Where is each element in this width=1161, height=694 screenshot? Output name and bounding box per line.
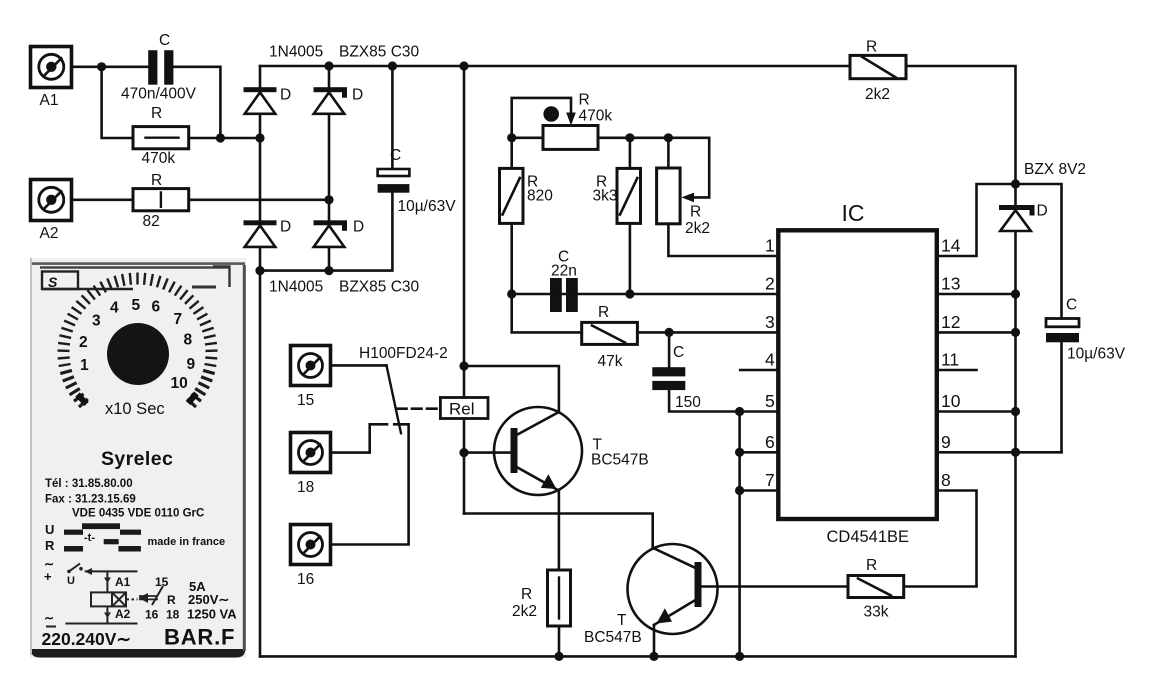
svg-text:14: 14 (941, 236, 961, 256)
terminal A1 (31, 47, 72, 88)
capacitor C 150 (652, 367, 685, 390)
node R2k2 trimmer top (664, 133, 673, 142)
svg-text:18: 18 (297, 479, 314, 496)
svg-text:Tél : 31.85.80.00: Tél : 31.85.80.00 (45, 478, 133, 490)
wire A2 to R82 (72, 199, 134, 202)
svg-text:BZX85 C30: BZX85 C30 (339, 44, 420, 61)
svg-text:1N4005: 1N4005 (269, 279, 323, 296)
top rail right segment (906, 66, 1016, 184)
svg-text:8: 8 (184, 332, 193, 349)
wire pin9 (937, 451, 1062, 454)
node pot left (507, 133, 516, 142)
wire 18 to contact (331, 424, 388, 452)
node pin2 left (507, 289, 516, 298)
svg-text:D: D (280, 87, 291, 104)
node pin10 (1011, 407, 1020, 416)
svg-text:1: 1 (80, 357, 89, 374)
wire R3k3 top (629, 138, 632, 169)
svg-text:C: C (159, 32, 170, 49)
wire T1 emitter down (558, 491, 561, 570)
wire pot left (512, 137, 543, 140)
wire C150 top leg (668, 332, 671, 367)
wire R2k2 bottom (558, 626, 561, 656)
svg-text:470n/400V: 470n/400V (121, 86, 197, 103)
svg-text:9: 9 (941, 432, 951, 452)
wire cap right bottom to pin9 (1060, 342, 1063, 452)
top rail (260, 65, 850, 68)
node top rail cap (388, 61, 397, 70)
svg-text:Syrelec: Syrelec (101, 448, 173, 470)
node top rail col2 (324, 61, 333, 70)
terminal 16 (291, 525, 331, 565)
diode D lower-left 1N4005 (244, 220, 277, 247)
svg-text:22n: 22n (551, 263, 577, 280)
svg-text:+: + (44, 569, 52, 584)
wire 15 to switch (331, 364, 387, 367)
wire trimmer bottom to pin1 (668, 224, 778, 256)
wire Rel top to T1 collector (464, 366, 559, 412)
svg-text:12: 12 (941, 312, 960, 332)
zener diode D BZX 8V2 (999, 205, 1035, 231)
svg-text:R: R (167, 593, 176, 607)
svg-text:made in france: made in france (148, 536, 226, 548)
svg-text:10µ/63V: 10µ/63V (398, 198, 457, 215)
bridge bottom rail to cap (260, 193, 392, 271)
resistor R 470k (133, 127, 189, 149)
svg-text:R: R (45, 538, 55, 553)
svg-text:2k2: 2k2 (685, 220, 710, 237)
wire pin13 (937, 293, 1016, 296)
wire pin6 (740, 451, 779, 454)
wire R820 bottom to pin2 line (510, 223, 513, 294)
pin11 stub (937, 369, 977, 372)
node pin6 (735, 448, 744, 457)
svg-text:A2: A2 (40, 225, 59, 242)
R2k2 top diagonal (862, 57, 896, 78)
node T1 base (459, 448, 468, 457)
photo dial numbers (79, 297, 196, 392)
bridge column 1 wire (259, 66, 262, 271)
svg-text:470k: 470k (579, 108, 613, 125)
svg-text:BZX85 C30: BZX85 C30 (339, 279, 420, 296)
svg-text:3: 3 (765, 312, 775, 332)
svg-text:R: R (151, 105, 162, 122)
svg-text:Rel: Rel (449, 400, 475, 419)
trimmer wiper arrowhead (682, 193, 695, 203)
svg-text:6: 6 (152, 299, 161, 316)
terminal 18 (291, 433, 331, 473)
R470k inner dash (146, 136, 179, 138)
node pin3 / C150 top (665, 328, 674, 337)
svg-text:R: R (598, 304, 609, 321)
svg-text:10: 10 (171, 375, 188, 392)
bottom rail wire (260, 655, 1016, 658)
svg-text:CD4541BE: CD4541BE (827, 528, 910, 546)
node pin13 (1011, 289, 1020, 298)
wire A1 to node (72, 66, 149, 69)
switch dashed link to Rel (397, 407, 440, 410)
wire pin12 (937, 331, 1016, 334)
diode D upper-left 1N4005 (244, 87, 277, 114)
svg-text:VDE 0435 VDE 0110 GrC: VDE 0435 VDE 0110 GrC (72, 508, 204, 520)
terminal A2 (31, 180, 72, 221)
svg-text:D: D (280, 219, 291, 236)
svg-text:S: S (48, 274, 58, 290)
wire cap right to node (173, 67, 220, 138)
photo dial knob (107, 323, 169, 385)
svg-text:R: R (866, 557, 877, 574)
node rail T2 emitter (649, 652, 658, 661)
svg-text:D: D (353, 219, 364, 236)
capacitor C 10u/63V (right electrolytic) (1046, 319, 1079, 343)
wire 16 contact branch (332, 424, 409, 544)
wire R470k right to bridge node (189, 137, 260, 140)
node bottom rail col2 (324, 266, 333, 275)
node Rel top (459, 361, 468, 370)
diode D upper-right zener BZX85 (314, 87, 348, 114)
node pin2 right (625, 289, 634, 298)
svg-text:6: 6 (765, 432, 775, 452)
pot wiper arrow (566, 113, 576, 126)
svg-text:D: D (352, 87, 363, 104)
node R3k3 top (625, 133, 634, 142)
terminal 15 (291, 346, 331, 386)
svg-text:15: 15 (155, 575, 169, 589)
trimmer resistor R 2k2 (657, 168, 681, 224)
R47k diagonal (592, 326, 625, 343)
resistor R 820 (500, 168, 524, 223)
wire BZX node to cap right (1016, 184, 1062, 318)
svg-text:C: C (1066, 297, 1077, 314)
svg-text:2: 2 (79, 334, 88, 351)
wire T2 base to R33k (702, 585, 849, 588)
svg-text:A1: A1 (40, 92, 59, 109)
resistor R 33k (848, 576, 904, 598)
photo mini schematic (44, 557, 237, 627)
svg-text:8: 8 (941, 470, 951, 490)
wire C150 bottom to pin5 (669, 390, 778, 411)
R82 inner tick (160, 193, 162, 207)
node BZX top (1011, 179, 1020, 188)
resistor R 47k (582, 322, 638, 344)
svg-text:220.240V∼: 220.240V∼ (42, 629, 132, 649)
photo top-right bracket (192, 267, 230, 288)
svg-text:H100FD24-2: H100FD24-2 (359, 345, 448, 362)
node bridge col1 mid (255, 133, 264, 142)
svg-text:T: T (617, 612, 627, 629)
wire pin8 (904, 491, 977, 587)
svg-text:2k2: 2k2 (512, 603, 537, 620)
svg-text:1N4005: 1N4005 (269, 44, 323, 61)
svg-text:A2: A2 (115, 607, 131, 621)
svg-text:5: 5 (132, 297, 141, 314)
node top rail vertical (459, 61, 468, 70)
svg-text:x10 Sec: x10 Sec (105, 400, 165, 418)
svg-text:BC547B: BC547B (591, 452, 649, 469)
wire node down to R470k left (102, 67, 133, 138)
wire top rail to cap 10u left (391, 66, 394, 169)
photo timing diagram (45, 522, 225, 553)
transistor T1 BC547B (494, 407, 582, 495)
wire R47k to pin3 (637, 331, 778, 334)
node pin7 (735, 486, 744, 495)
svg-text:3: 3 (92, 313, 101, 330)
svg-text:R: R (690, 204, 701, 221)
svg-text:5: 5 (765, 391, 775, 411)
wire pin7 (740, 489, 779, 492)
node pin5 (735, 407, 744, 416)
wire pin14 (937, 184, 1016, 256)
wire pin3 left leg (512, 294, 582, 332)
svg-text:470k: 470k (142, 150, 176, 167)
Syrelec relay photo (30, 258, 246, 658)
svg-text:10: 10 (941, 391, 961, 411)
wire R820 top (510, 138, 513, 169)
svg-text:1250 VA: 1250 VA (187, 607, 237, 622)
capacitor C 470n/400V (148, 50, 173, 84)
bridge column 2 wire (328, 66, 331, 271)
resistor R 2k2 (emitter) (548, 570, 571, 626)
svg-text:BAR.F: BAR.F (164, 625, 235, 650)
resistor R 82 (133, 189, 189, 211)
svg-text:16: 16 (297, 571, 314, 588)
photo dial end marks (78, 394, 197, 405)
svg-text:∼: ∼ (44, 611, 54, 625)
wire pot right rail (598, 138, 709, 198)
transistor T2 BC547B (628, 544, 718, 634)
svg-text:10µ/63V: 10µ/63V (1067, 346, 1126, 363)
svg-text:13: 13 (941, 274, 960, 294)
svg-text:U: U (67, 575, 75, 587)
svg-text:82: 82 (143, 213, 160, 230)
wire R3k3 bottom (629, 223, 632, 294)
switch blade (387, 365, 402, 433)
svg-text:R: R (866, 39, 877, 56)
diode D lower-right zener BZX85 (314, 220, 348, 247)
svg-text:2: 2 (765, 274, 775, 294)
wire to T2 collector (464, 514, 653, 548)
svg-text:Fax : 31.23.15.69: Fax : 31.23.15.69 (45, 494, 136, 506)
wire T2 emitter down (653, 625, 656, 657)
R33k diagonal (858, 579, 891, 596)
svg-text:1: 1 (765, 236, 775, 256)
node rail pins vertical (735, 652, 744, 661)
wire R2k2 trimmer top (667, 138, 670, 168)
node bridge col2 mid (324, 195, 333, 204)
svg-text:820: 820 (527, 188, 553, 205)
capacitor C 22n (550, 278, 578, 312)
R820 diagonal (503, 178, 520, 215)
svg-text:150: 150 (675, 394, 701, 411)
svg-text:BC547B: BC547B (584, 629, 642, 646)
svg-text:4: 4 (110, 300, 119, 317)
node pin12 (1011, 328, 1020, 337)
capacitor C 10u/63V (left electrolytic) (378, 169, 410, 193)
potentiometer R 470k body (543, 126, 598, 150)
wire pins vertical x=739.6 (738, 412, 741, 657)
relay coil Rel box (440, 398, 488, 419)
svg-text:47k: 47k (598, 353, 623, 370)
svg-text:11: 11 (941, 350, 959, 370)
svg-text:7: 7 (765, 470, 775, 490)
main vertical wire x=464 (463, 66, 466, 514)
node RC right (216, 133, 225, 142)
svg-text:C: C (673, 344, 684, 361)
svg-text:2k2: 2k2 (865, 86, 890, 103)
node rail R2k2 (554, 652, 563, 661)
svg-text:4: 4 (765, 350, 775, 370)
left border wire (259, 271, 262, 657)
pot adjustment bullet (543, 106, 559, 122)
svg-text:15: 15 (297, 392, 314, 409)
wire pin10 (937, 410, 1016, 413)
svg-text:-t-: -t- (84, 532, 95, 544)
svg-text:U: U (45, 522, 54, 537)
wire pin2 line (512, 293, 779, 296)
node pin9 (1011, 448, 1020, 457)
photo S logo box (40, 268, 230, 291)
pot bracket wiper strap (512, 98, 571, 138)
wire T1 base (464, 451, 511, 454)
svg-text:D: D (1037, 203, 1048, 220)
svg-text:A1: A1 (115, 575, 131, 589)
svg-text:IC: IC (842, 200, 865, 226)
photo dial ticks (58, 273, 218, 408)
svg-text:R: R (521, 586, 532, 603)
IC U1 CD4541BE box (778, 230, 937, 519)
svg-text:9: 9 (187, 356, 196, 373)
svg-text:250V∼: 250V∼ (188, 592, 229, 607)
R3k3 diagonal (620, 178, 637, 215)
svg-text:R: R (151, 172, 162, 189)
node bottom rail col1 (255, 266, 264, 275)
svg-text:33k: 33k (864, 604, 889, 621)
svg-text:7: 7 (174, 311, 183, 328)
svg-text:C: C (390, 147, 401, 164)
node A1 junction (97, 62, 106, 71)
wire R82 right to bridge col2 (189, 199, 329, 202)
resistor R 3k3 (617, 168, 641, 223)
svg-text:3k3: 3k3 (593, 188, 618, 205)
svg-text:BZX 8V2: BZX 8V2 (1024, 161, 1086, 178)
svg-text:18: 18 (166, 608, 180, 622)
resistor R 2k2 (top right) (850, 55, 906, 78)
svg-text:16: 16 (145, 608, 159, 622)
pin4 stub (740, 369, 778, 372)
R2k2 emitter inner tick (558, 578, 560, 619)
right border wire (1014, 184, 1017, 656)
svg-text:R: R (579, 92, 590, 109)
